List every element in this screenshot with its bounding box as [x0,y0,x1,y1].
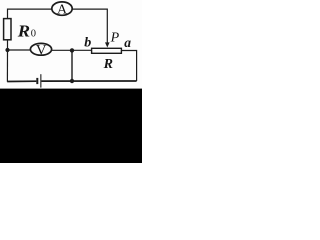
svg-text:0: 0 [31,28,36,39]
wire: ammeter right to slider corner, down to arrow [73,9,108,43]
wire: voltmeter right to rheostat terminal b [52,49,92,51]
node: junction dot left (below R0) [5,48,9,52]
resistor R0 (box) [4,19,11,40]
svg-text:R: R [17,21,30,40]
wire: left vertical down segment [6,50,8,82]
svg-text:V: V [36,42,47,58]
node: junction dot bottom [70,79,74,83]
ammeter U-A [52,2,72,15]
svg-text:b: b [84,35,91,50]
black band at bottom of scan [0,89,142,163]
wire: top rail from top-left corner to ammeter [8,9,52,50]
battery positive plate (long thin) [40,74,41,87]
arrowhead of slider P [105,42,110,47]
wire: bottom rail right segment (battery to right rail) [41,80,136,82]
svg-text:R: R [103,57,113,72]
battery negative plate (short thick) [36,78,38,84]
svg-text:a: a [124,35,131,50]
wire: left node to voltmeter [8,49,31,51]
node: junction dot middle [70,48,74,52]
svg-text:P: P [110,31,120,46]
voltmeter U-V [30,43,51,55]
wire: rheostat terminal a to right rail down [122,51,137,82]
svg-text:A: A [57,2,68,17]
wire: bottom rail left segment (to battery) [7,80,36,82]
rheostat R (box) [92,48,122,53]
wire: middle junction down to bottom rail [71,50,73,81]
